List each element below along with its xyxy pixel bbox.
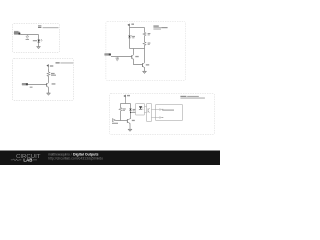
svg-text:http://circuitlab.com/c4313dq5: http://circuitlab.com/c4313dq5tmk6o: [48, 157, 103, 161]
svg-text:LAB: LAB: [23, 158, 32, 163]
